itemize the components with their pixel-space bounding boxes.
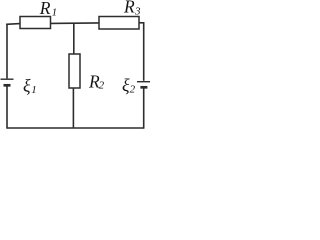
- svg-text:R: R: [39, 0, 51, 18]
- svg-text:ξ: ξ: [23, 75, 31, 95]
- svg-text:2: 2: [99, 79, 105, 91]
- svg-text:3: 3: [134, 5, 141, 17]
- svg-text:R: R: [123, 0, 135, 17]
- svg-text:1: 1: [52, 6, 58, 18]
- svg-text:1: 1: [31, 84, 37, 96]
- svg-text:2: 2: [130, 84, 136, 96]
